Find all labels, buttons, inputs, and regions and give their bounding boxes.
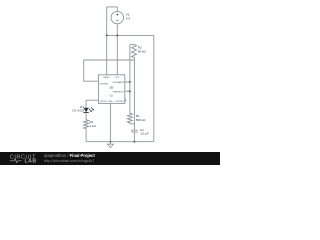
- wire bottom rail: [86, 141, 154, 143]
- svg-text:555: 555: [110, 87, 115, 90]
- svg-text:1 kΩ: 1 kΩ: [90, 124, 97, 128]
- node dot ground rail: [109, 141, 111, 143]
- capacitor C1: [131, 128, 149, 136]
- svg-text:http://circuitlab.com/c/bqp4k7: http://circuitlab.com/c/bqp4k7: [44, 158, 94, 163]
- wire 555 GND pin: [109, 103, 111, 141]
- node dot C1 rail: [133, 141, 135, 143]
- 555 timer U1: [98, 75, 124, 104]
- wire R1 bottom jog: [130, 123, 135, 124]
- wire chain A (DIS/THR to R1): [129, 45, 131, 114]
- node dot threshold: [129, 90, 131, 92]
- resistor R3: [84, 120, 97, 129]
- resistor R1: [127, 113, 146, 123]
- no-connect cross on CONTROL: [124, 98, 126, 102]
- svg-text:OUTPUT: OUTPUT: [99, 101, 108, 103]
- node dot V+ bus: [106, 34, 108, 36]
- voltage source V2: [111, 11, 131, 23]
- svg-text:500 kΩ: 500 kΩ: [136, 118, 146, 122]
- wire trigger loop: [84, 60, 135, 81]
- wire top bus: [107, 34, 154, 36]
- wire C1 to rail: [133, 132, 135, 142]
- wire discharge pin: [125, 81, 130, 83]
- svg-text:LTL-4223: LTL-4223: [72, 109, 84, 113]
- svg-text:THRESHOLD: THRESHOLD: [112, 91, 124, 93]
- wire output to LED: [86, 100, 98, 108]
- svg-text:VCC: VCC: [115, 77, 120, 79]
- wire right rail: [153, 35, 155, 141]
- svg-text:GND: GND: [108, 101, 113, 103]
- svg-text:10 µF: 10 µF: [141, 132, 149, 136]
- wire LED to R3: [85, 113, 87, 120]
- wire control pin stub: [125, 99, 127, 101]
- svg-text:DISCHARGE: DISCHARGE: [113, 81, 125, 84]
- node dot discharge: [129, 81, 131, 83]
- footer bar: [0, 152, 220, 165]
- node dot V- bus: [116, 34, 118, 36]
- wire V+ top loop: [107, 7, 118, 75]
- wire chain B (to C1): [133, 60, 135, 130]
- wire threshold pin: [125, 90, 130, 92]
- svg-text:CONTROL: CONTROL: [115, 101, 124, 103]
- LED D1: [72, 105, 93, 113]
- svg-text:LAB: LAB: [25, 159, 37, 165]
- svg-text:TRIGGER: TRIGGER: [99, 83, 108, 85]
- svg-text:90 kΩ: 90 kΩ: [138, 49, 147, 53]
- resistor R2: [130, 45, 147, 60]
- ground: [107, 142, 113, 148]
- wire R3 to rail: [85, 129, 87, 142]
- wire V- down to VCC pin: [116, 24, 118, 75]
- svg-text:RESET: RESET: [104, 77, 111, 79]
